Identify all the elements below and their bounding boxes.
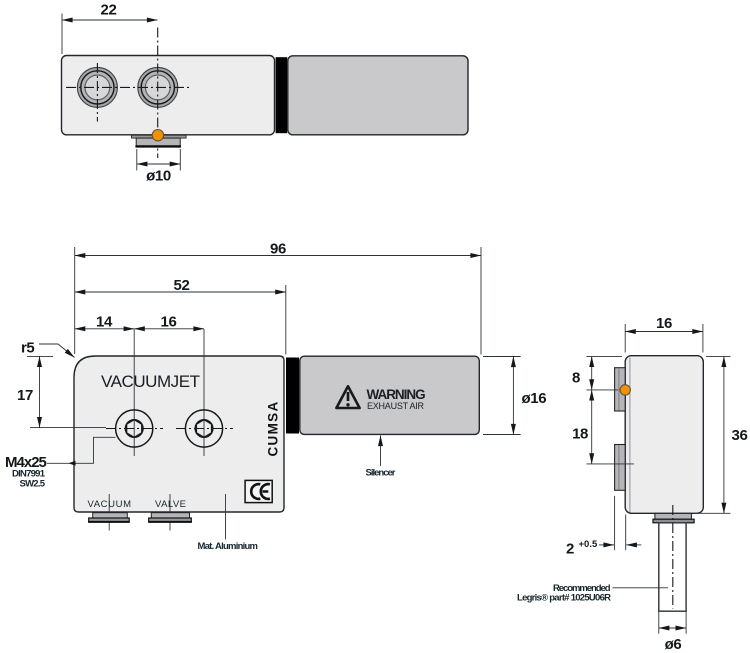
svg-text:VACUUM: VACUUM: [88, 499, 132, 510]
dimension 36: [694, 356, 747, 513]
bottom port tab: [136, 138, 180, 146]
front black seal strip: [286, 358, 299, 434]
svg-text:36: 36: [732, 427, 748, 444]
warning triangle: [336, 386, 359, 408]
side view upper tab: [615, 368, 626, 411]
warning triangle exclamation: [347, 392, 350, 401]
top view black seal strip: [276, 57, 288, 133]
front port right screw hole: [195, 420, 213, 438]
top view vertical centerline left port: [96, 63, 98, 122]
vacuum port tab lip: [89, 518, 130, 522]
M4x25 leader arrowhead: [69, 461, 76, 466]
svg-text:Legris® part# 1025U06R: Legris® part# 1025U06R: [517, 593, 611, 604]
side view body: [625, 356, 703, 514]
dimension 52: [75, 277, 286, 355]
front port left screw hole: [125, 420, 143, 438]
svg-text:CUMSA: CUMSA: [266, 401, 281, 457]
tube centerline: [672, 505, 674, 609]
svg-text:r5: r5: [21, 340, 34, 357]
svg-text:Mat. Aluminium: Mat. Aluminium: [198, 541, 259, 552]
dimension 18: [572, 390, 634, 464]
dimension 14: [75, 314, 135, 331]
dimension o6: [659, 610, 686, 653]
svg-text:17: 17: [17, 387, 33, 404]
dimension 8: [572, 356, 622, 390]
Silencer leader arrow: [380, 436, 382, 467]
side view lower tab: [615, 445, 626, 491]
M4x25 leader line: [47, 437, 116, 463]
vacuum port leader line: [108, 494, 110, 531]
dimension o10: [137, 149, 181, 185]
top view port hole right: [138, 67, 178, 107]
side view lower tab lip line: [618, 445, 620, 490]
port centerline vertical right: [203, 329, 205, 456]
CE mark box: [245, 480, 272, 502]
vacuum port tab: [93, 513, 128, 518]
svg-text:16: 16: [161, 314, 177, 331]
svg-text:2: 2: [566, 541, 574, 558]
orange locator dot (top view): [152, 130, 163, 141]
r5 leader: [39, 344, 75, 358]
svg-text:Silencer: Silencer: [366, 468, 396, 479]
front port right hex socket: [196, 420, 211, 438]
valve port tab: [151, 513, 189, 518]
svg-text:96: 96: [270, 240, 286, 257]
dimension 16: [134, 314, 204, 331]
bottom port tab dark base: [135, 145, 181, 147]
CE mark glyphs: [251, 484, 270, 499]
top view body: [62, 56, 275, 135]
svg-text:+0.5: +0.5: [579, 539, 598, 550]
svg-text:52: 52: [174, 277, 190, 294]
dimension 17: [17, 356, 106, 427]
svg-text:VACUUMJET: VACUUMJET: [101, 372, 200, 391]
Mat. Aluminium leader: [225, 494, 227, 540]
Recommended leader line: [613, 587, 669, 589]
svg-text:WARNING: WARNING: [367, 387, 427, 402]
top view horizontal centerline: [66, 86, 190, 88]
svg-text:VALVE: VALVE: [155, 499, 186, 510]
front port left outer circle: [116, 410, 153, 447]
front port right horizontal centerline: [176, 428, 233, 430]
dimension 96: [75, 240, 481, 354]
svg-text:8: 8: [572, 369, 580, 386]
svg-text:22: 22: [101, 2, 117, 19]
top view port hole left: [77, 67, 117, 107]
top view silencer: [288, 56, 468, 135]
fitting flange lip: [653, 519, 694, 523]
svg-text:ø10: ø10: [146, 168, 171, 185]
orange locator dot (side view): [620, 385, 630, 395]
bottom port lip: [132, 135, 187, 138]
svg-text:16: 16: [656, 315, 672, 332]
valve port leader line: [169, 494, 171, 531]
svg-text:18: 18: [572, 426, 588, 443]
svg-text:SW2.5: SW2.5: [20, 479, 46, 490]
dimension 22: [62, 2, 158, 55]
svg-text:EXHAUST AIR: EXHAUST AIR: [367, 401, 425, 411]
front view body: [74, 356, 284, 512]
top view vertical centerline right port: [157, 28, 159, 159]
front port left horizontal centerline: [106, 428, 163, 430]
front silencer: [300, 356, 480, 434]
front port right outer circle: [185, 410, 222, 447]
port centerline vertical left: [133, 329, 135, 456]
fitting tube: [659, 523, 686, 611]
dimension 2 +0.5: [566, 496, 641, 558]
svg-text:ø16: ø16: [522, 390, 547, 407]
dimension 16 (side): [625, 315, 703, 353]
front port left hex socket: [127, 420, 142, 438]
fitting flange: [655, 513, 692, 519]
side view inner edge line: [629, 358, 631, 513]
svg-text:14: 14: [96, 314, 113, 331]
dimension o16: [483, 357, 546, 435]
valve port tab lip: [149, 518, 192, 522]
side view upper tab lip line: [618, 368, 620, 410]
svg-text:ø6: ø6: [665, 636, 682, 653]
